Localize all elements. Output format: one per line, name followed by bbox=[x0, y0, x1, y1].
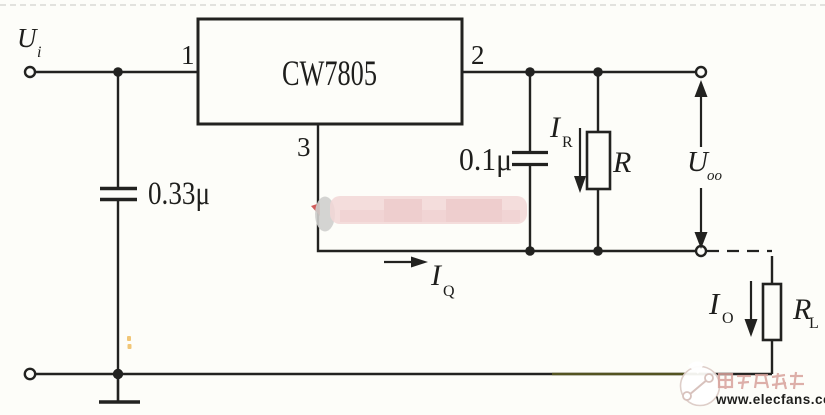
node F junction (bottom rail) bbox=[113, 369, 123, 379]
svg-text:2: 2 bbox=[471, 40, 485, 70]
wire bottom rail olive tinted segment under watermark bbox=[552, 373, 705, 376]
svg-text:CW7805: CW7805 bbox=[282, 53, 377, 93]
svg-text:0.1μ: 0.1μ bbox=[459, 141, 512, 177]
node A junction (input node) bbox=[113, 67, 123, 77]
node C junction (output node, R top) bbox=[593, 67, 603, 77]
svg-text:O: O bbox=[722, 310, 734, 327]
ground bbox=[99, 374, 140, 402]
decorative middle watermark blur bbox=[311, 196, 527, 232]
output voltage Uoo label with arrows bbox=[687, 80, 723, 249]
resistor RL load bbox=[763, 284, 819, 374]
wire input terminal to pin 1 bbox=[36, 71, 198, 73]
output terminal bottom bbox=[696, 246, 706, 256]
output terminal top bbox=[696, 67, 706, 77]
glyph 5 bbox=[790, 375, 803, 377]
bottom terminal left bbox=[25, 369, 35, 379]
decorative bottom-right watermark (elecfans logo) bbox=[681, 361, 825, 407]
wire pin 3 down and right (quiescent current path) bbox=[318, 124, 696, 251]
svg-text:i: i bbox=[37, 44, 41, 61]
wire bottom rail bbox=[36, 373, 772, 376]
svg-text:0.33μ: 0.33μ bbox=[148, 176, 210, 212]
svg-text:R: R bbox=[562, 134, 573, 151]
svg-text:I: I bbox=[708, 286, 721, 321]
wire pin 2 to output terminal bbox=[462, 71, 697, 73]
node B junction (output node, cap) bbox=[525, 67, 535, 77]
current IR label and arrow bbox=[549, 111, 586, 193]
svg-text:oo: oo bbox=[707, 168, 723, 184]
svg-text:www.elecfans.com: www.elecfans.com bbox=[715, 392, 825, 407]
node E junction (mid rail, R bottom) bbox=[593, 246, 603, 256]
fake CJK glyph row bbox=[719, 372, 804, 389]
resistor R bbox=[587, 72, 631, 251]
svg-text:Q: Q bbox=[443, 283, 455, 300]
capacitor C1 0.33u bbox=[100, 72, 210, 374]
svg-text:L: L bbox=[809, 315, 819, 332]
capacitor C2 0.1u bbox=[459, 72, 548, 251]
glyph 2 bbox=[737, 375, 751, 377]
decorative scan artifact (orange marks) bbox=[127, 336, 132, 349]
svg-text:R: R bbox=[612, 146, 631, 179]
svg-text:U: U bbox=[17, 23, 38, 53]
node Ui label bbox=[17, 23, 41, 61]
current IO label and arrow bbox=[708, 281, 758, 337]
glyph 1 bbox=[719, 374, 732, 387]
op-amp U1 CW7805 regulator box bbox=[198, 19, 462, 124]
dashed wire from bottom output terminal to load bbox=[707, 251, 772, 284]
node D junction (mid rail, cap bottom) bbox=[525, 246, 535, 256]
svg-text:1: 1 bbox=[181, 40, 195, 70]
glyph 4 bbox=[772, 375, 785, 377]
decorative top dashed border (not labelled) bbox=[0, 4, 825, 6]
glyph 3 bbox=[755, 374, 768, 376]
current IQ arrow and label bbox=[384, 257, 455, 301]
svg-text:3: 3 bbox=[297, 132, 311, 162]
input terminal bbox=[25, 67, 35, 77]
